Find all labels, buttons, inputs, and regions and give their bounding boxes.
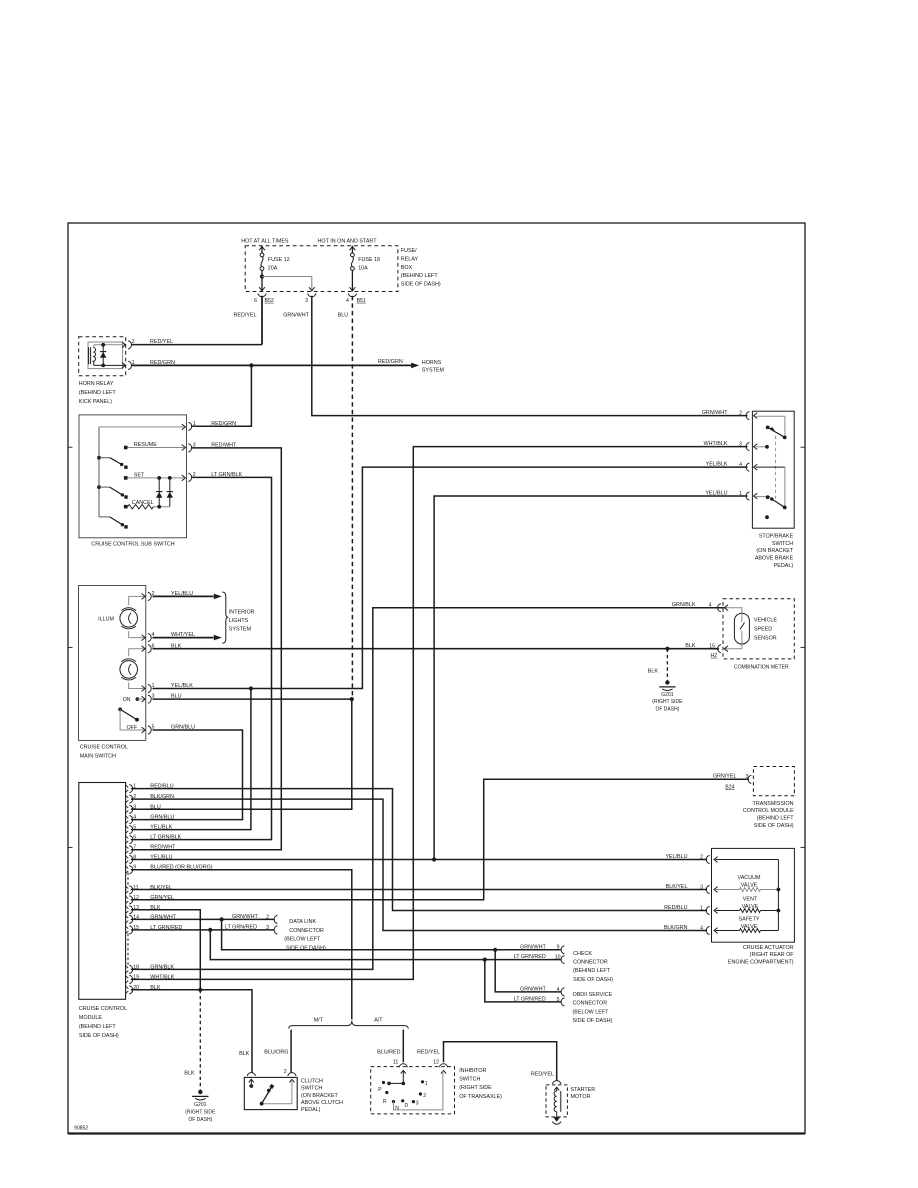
svg-text:SYSTEM: SYSTEM — [422, 367, 445, 373]
wire BLK module pin20 to clutch switch — [131, 990, 252, 1073]
svg-text:BLK/YEL: BLK/YEL — [150, 885, 172, 891]
diode D1 sub switch — [158, 478, 160, 507]
svg-text:15: 15 — [709, 644, 715, 650]
frame tick right — [801, 846, 806, 848]
svg-text:SIDE OF DASH): SIDE OF DASH) — [401, 282, 441, 288]
svg-text:LIGHTS: LIGHTS — [229, 618, 249, 624]
stop/brake lower blade — [772, 499, 785, 507]
wire GRN/BLK meter pin4 to module pin 18 — [131, 608, 724, 970]
sub switch inner wire pin 1 — [99, 426, 184, 428]
arrow up hot feed F18 — [350, 247, 356, 251]
svg-text:12: 12 — [433, 1060, 439, 1066]
svg-text:KICK PANEL): KICK PANEL) — [79, 399, 112, 405]
svg-text:20A: 20A — [268, 265, 278, 271]
svg-text:ILLUM: ILLUM — [98, 616, 114, 622]
arrow down fuse box pin 3 — [309, 287, 315, 291]
svg-text:1: 1 — [193, 421, 196, 427]
svg-text:SWITCH: SWITCH — [772, 541, 793, 547]
svg-text:10A: 10A — [358, 265, 368, 271]
connector cup module pin 14 — [129, 915, 132, 923]
connector cup actuator pin 3 — [706, 885, 709, 893]
svg-text:BLK: BLK — [239, 1051, 250, 1057]
inhibitor common contact — [402, 1082, 406, 1086]
wire RED/BLU module pin1 to actuator pin 1 — [131, 789, 707, 911]
svg-text:CONNECTOR: CONNECTOR — [573, 960, 608, 966]
svg-text:INTERIOR: INTERIOR — [229, 610, 255, 616]
svg-text:G201: G201 — [661, 692, 673, 698]
svg-text:A/T: A/T — [374, 1017, 383, 1023]
starter motor ground — [553, 1117, 560, 1122]
sub switch arm 2 blade — [110, 487, 123, 495]
frame tick left — [68, 646, 73, 648]
svg-text:ABOVE CLUTCH: ABOVE CLUTCH — [301, 1100, 343, 1106]
wire RED/WHT sub pin3 to module pin 7 — [131, 448, 281, 850]
junction RED/GRN to sub switch — [249, 363, 253, 367]
connector cup module pin 13 — [129, 906, 132, 914]
transmission control module — [753, 767, 794, 796]
svg-text:CRUISE CONTROL: CRUISE CONTROL — [80, 745, 128, 751]
svg-text:CONNECTOR: CONNECTOR — [289, 928, 324, 934]
connector cup clutch pin 1 — [247, 1073, 255, 1076]
frame tick left — [68, 446, 73, 448]
svg-text:GRN/BLK: GRN/BLK — [150, 964, 174, 970]
svg-text:LT GRN/RED: LT GRN/RED — [514, 997, 546, 1003]
fuse/relay box — [245, 246, 398, 292]
junction actuator bus — [777, 888, 781, 892]
svg-text:11: 11 — [393, 1060, 398, 1066]
svg-text:4: 4 — [557, 987, 560, 993]
connector cup pin 3 — [308, 294, 316, 297]
svg-text:BLU: BLU — [150, 804, 161, 810]
junction horn relay diode bottom — [101, 364, 105, 368]
inhibitor inner wire pin 11 — [402, 1070, 404, 1083]
connector cup horn relay pin 1 — [128, 361, 131, 369]
svg-text:SYSTEM: SYSTEM — [229, 627, 252, 633]
connector cup stop/brake pin 1 — [746, 492, 749, 500]
junction YEL/BLK branch to module — [249, 686, 253, 690]
wire BLU/RED to inhibitor switch — [402, 1030, 404, 1063]
junction SET diode 2 — [168, 476, 172, 480]
border frame — [68, 223, 805, 1134]
svg-text:10: 10 — [555, 955, 561, 961]
horn relay diode — [102, 345, 104, 366]
connector cup main pin 5 — [148, 726, 151, 734]
svg-text:VALVE: VALVE — [741, 882, 758, 888]
svg-text:FUSE 18: FUSE 18 — [358, 257, 380, 263]
svg-text:(BEHIND LEFT: (BEHIND LEFT — [573, 968, 611, 974]
brace M/T A/T split — [289, 1021, 409, 1029]
sub switch inner wire RESUME pin 3 — [128, 447, 185, 449]
svg-text:(RIGHT REAR OF: (RIGHT REAR OF — [750, 952, 795, 958]
sub switch inner wire SET pin 2 — [128, 477, 185, 479]
svg-text:CHECK: CHECK — [573, 951, 592, 957]
svg-text:R: R — [383, 1099, 387, 1105]
svg-text:INHIBITOR: INHIBITOR — [459, 1068, 486, 1074]
junction CANCEL diode 1 — [157, 505, 161, 509]
contact 3 — [412, 1100, 415, 1103]
stop/brake pin 1 stub — [756, 496, 771, 498]
connector cup inhibitor pin 12 — [439, 1064, 447, 1067]
wire BLU (dashed) fuse pin4 down to main switch junction — [351, 296, 353, 699]
VSS reed contact — [740, 623, 745, 630]
solenoid safety valve — [716, 930, 740, 932]
stop/brake lower pivot — [783, 506, 787, 510]
sub switch arm 1 pivot — [97, 456, 101, 460]
connector cup module pin 19 — [129, 975, 132, 983]
svg-text:2: 2 — [739, 410, 742, 416]
horn relay pin 1 contact arrow — [122, 363, 126, 369]
svg-text:MOTOR: MOTOR — [571, 1094, 591, 1100]
wire RED/GRN branch to sub switch pin 1 — [191, 365, 251, 426]
svg-text:YEL/BLU: YEL/BLU — [150, 855, 172, 861]
lamp ILLUM — [129, 596, 145, 605]
fuse F12 20A — [261, 246, 263, 254]
connector cup main pin 3 — [148, 695, 151, 703]
inhibitor inner wire pin 12 — [394, 1070, 443, 1110]
cruise control module — [79, 783, 126, 1000]
svg-text:3: 3 — [305, 298, 308, 304]
svg-text:SWITCH: SWITCH — [459, 1077, 480, 1083]
wire BLK module pin13 down — [131, 910, 201, 990]
svg-text:RED/WHT: RED/WHT — [150, 845, 176, 851]
connector cup module pin 6 — [129, 836, 132, 844]
wire BLU/ORG to clutch switch — [290, 1030, 292, 1073]
svg-text:WHT/BLK: WHT/BLK — [150, 974, 174, 980]
wire LT GRN/BLK sub pin2 to module pin 6 — [131, 477, 272, 839]
svg-text:RELAY: RELAY — [401, 256, 419, 262]
junction SET diode 1 — [157, 476, 161, 480]
connector cup main pin 1 — [148, 684, 151, 692]
svg-text:MODULE: MODULE — [79, 1015, 102, 1021]
junction horn relay diode top — [101, 343, 105, 347]
svg-text:5: 5 — [557, 997, 560, 1003]
connector cup OBDII pin 5 — [561, 998, 564, 1006]
svg-text:B52: B52 — [265, 298, 274, 304]
svg-text:12: 12 — [133, 895, 139, 901]
wire BLU/RED module pin9 to M/T-A/T brace — [131, 870, 352, 1020]
svg-text:HOT AT ALL TIMES: HOT AT ALL TIMES — [241, 239, 289, 245]
svg-text:VALVE: VALVE — [741, 924, 758, 930]
svg-text:3: 3 — [133, 804, 136, 810]
wire LT GRN/RED branch to check connector pin 10 — [210, 930, 561, 960]
connector cup module pin 20 — [129, 986, 132, 994]
svg-text:HORN RELAY: HORN RELAY — [79, 381, 114, 387]
connector cup module pin 11 — [129, 886, 132, 894]
connector cup horn relay pin 2 — [128, 341, 131, 349]
svg-text:TRANSMISSION: TRANSMISSION — [753, 801, 794, 807]
connector cup DLC pin 2 — [274, 915, 277, 923]
main switch blade — [120, 709, 137, 719]
svg-text:VEHICLE: VEHICLE — [754, 617, 777, 623]
arrowhead to horns system — [411, 363, 419, 369]
svg-text:PEDAL): PEDAL) — [774, 563, 794, 569]
connector cup module pin 12 — [129, 896, 132, 904]
svg-text:STOP/BRAKE: STOP/BRAKE — [759, 533, 794, 539]
wire RED/YEL drop from pin 6 — [261, 296, 263, 345]
vehicle speed sensor — [734, 613, 749, 644]
svg-text:GRN/BLU: GRN/BLU — [150, 815, 174, 821]
svg-text:RED/BLU: RED/BLU — [150, 784, 173, 790]
sub switch pin 3 arrow — [182, 445, 186, 451]
svg-text:3: 3 — [416, 1101, 419, 1107]
wire YEL/BLK branch to module pin 5 — [131, 689, 251, 830]
svg-text:CLUTCH: CLUTCH — [301, 1078, 323, 1084]
arrowhead YEL/BLU — [214, 594, 222, 600]
svg-text:4: 4 — [133, 815, 136, 821]
svg-text:VALVE: VALVE — [742, 904, 759, 910]
frame tick right — [801, 646, 806, 648]
horn relay inner wire pin 1 — [94, 364, 125, 366]
svg-text:DATA LINK: DATA LINK — [289, 919, 316, 925]
svg-text:GRN/WHT: GRN/WHT — [520, 987, 546, 993]
connector cup TCM pin 3 — [748, 775, 751, 783]
svg-text:BLK: BLK — [184, 1071, 195, 1077]
lamp main switch 2 — [129, 649, 145, 657]
svg-text:H2: H2 — [711, 653, 718, 659]
svg-text:9: 9 — [557, 945, 560, 951]
ground G201 (right side of dash) — [665, 680, 669, 684]
connector cup OBDII pin 4 — [561, 988, 564, 996]
frame tick left — [68, 846, 73, 848]
horn relay — [79, 337, 126, 376]
svg-text:LT GRN/BLK: LT GRN/BLK — [150, 835, 181, 841]
svg-text:SENSOR: SENSOR — [754, 635, 777, 641]
contact R — [385, 1091, 388, 1094]
svg-text:1: 1 — [133, 784, 136, 790]
resistor sub switch CANCEL — [128, 505, 154, 509]
svg-text:BOX: BOX — [401, 265, 413, 271]
svg-text:7: 7 — [133, 845, 136, 851]
svg-text:(BELOW LEFT: (BELOW LEFT — [573, 1009, 610, 1015]
svg-text:CRUISE CONTROL SUB SWITCH: CRUISE CONTROL SUB SWITCH — [91, 542, 174, 548]
wire BLK dashed to ground — [666, 649, 668, 681]
svg-text:1: 1 — [425, 1081, 428, 1087]
starter motor coil — [554, 1091, 557, 1112]
svg-text:HORNS: HORNS — [422, 360, 442, 366]
svg-text:FUSE/: FUSE/ — [401, 248, 417, 254]
module hidden pins dashes — [127, 873, 129, 888]
connector cup module pin 8 — [129, 855, 132, 863]
connector cup actuator pin 2 — [706, 855, 709, 863]
svg-text:SIDE OF DASH): SIDE OF DASH) — [573, 1018, 613, 1024]
svg-text:GRN/WHT: GRN/WHT — [232, 914, 258, 920]
svg-text:4: 4 — [739, 462, 742, 468]
wire GRN/WHT module pin14 to DLC pin 2 — [131, 918, 275, 920]
actuator internal bus — [716, 859, 779, 861]
svg-text:(BEHIND LEFT: (BEHIND LEFT — [79, 1024, 117, 1030]
wire BLU junction to module pin 3 — [131, 699, 352, 809]
connector cup meter pin 15 — [718, 645, 721, 653]
wire LT GRN/RED to OBDII pin 5 — [485, 960, 562, 1002]
svg-text:(ON BRACKET: (ON BRACKET — [301, 1093, 339, 1099]
contact unused — [765, 515, 769, 519]
svg-text:HOT IN ON AND START: HOT IN ON AND START — [318, 239, 378, 245]
horn relay coil — [88, 347, 90, 364]
junction YEL/BLU — [432, 857, 436, 861]
stop/brake switch internals — [756, 416, 785, 436]
connector cup module pin 15 — [129, 926, 132, 934]
contact stop/brake pin1 — [766, 495, 770, 499]
connector cup inhibitor pin 11 — [399, 1064, 407, 1067]
svg-text:OFF: OFF — [127, 725, 137, 731]
stop/brake upper blade — [770, 429, 785, 438]
cruise control sub switch — [79, 415, 187, 538]
wire RED/YEL to horn relay pin 2 — [132, 344, 263, 346]
wire YEL/BLU stop/brake pin1 to actuator junction — [434, 496, 747, 860]
contact 2 — [419, 1092, 422, 1095]
svg-text:(RIGHT SIDE: (RIGHT SIDE — [185, 1110, 216, 1116]
wire OFF contact to pin 5 — [120, 709, 144, 730]
frame tick right — [801, 446, 806, 448]
svg-text:YEL/BLK: YEL/BLK — [706, 462, 728, 468]
horn relay inner wire pin 2 — [94, 344, 125, 346]
wire BLK/GRN module pin2 to actuator pin 4 — [131, 799, 707, 930]
stop/brake pin 4 inner wire — [756, 466, 785, 468]
connector cup clutch pin 2 — [288, 1073, 296, 1076]
horn relay pin 2 contact arrow — [122, 342, 126, 348]
svg-text:VENT: VENT — [743, 897, 758, 903]
svg-text:LT GRN/RED: LT GRN/RED — [225, 925, 257, 931]
svg-text:11: 11 — [133, 885, 138, 891]
svg-text:SWITCH: SWITCH — [301, 1086, 322, 1092]
svg-text:RED/YEL: RED/YEL — [531, 1072, 554, 1078]
connector cup check connector pin 10 — [561, 956, 564, 964]
connector cup DLC pin 3 — [274, 926, 277, 934]
svg-text:BLU: BLU — [338, 313, 349, 319]
svg-text:GRN/YEL: GRN/YEL — [150, 895, 174, 901]
sub switch common bar — [98, 427, 100, 517]
wire YEL/BLU to interior lights — [153, 595, 214, 597]
svg-text:(BEHIND LEFT: (BEHIND LEFT — [401, 273, 439, 279]
svg-text:2: 2 — [284, 1069, 287, 1075]
wire BLK dashed to ground G201 — [199, 990, 201, 1090]
contact P — [382, 1081, 385, 1084]
clutch switch blade — [262, 1087, 272, 1104]
sub switch pin 1 arrow — [182, 424, 186, 430]
contact N — [392, 1100, 395, 1103]
svg-text:OF DASH): OF DASH) — [655, 706, 679, 712]
svg-text:8: 8 — [133, 855, 136, 861]
svg-text:PEDAL): PEDAL) — [301, 1107, 321, 1113]
stop/brake upper pivot — [783, 436, 787, 440]
svg-text:(BEHIND LEFT: (BEHIND LEFT — [79, 390, 117, 396]
svg-text:B51: B51 — [357, 298, 366, 304]
wire RED/GRN horn relay pin1 to horns system — [132, 364, 412, 366]
connector cup module pin 9 — [129, 866, 132, 874]
svg-text:CONTROL MODULE: CONTROL MODULE — [743, 808, 794, 814]
sub switch arm 3 — [99, 516, 110, 518]
contact ON — [136, 697, 140, 701]
svg-text:CONNECTOR: CONNECTOR — [573, 1001, 608, 1007]
svg-text:BLU/ORG: BLU/ORG — [264, 1050, 288, 1056]
mechanical link dashed — [775, 436, 777, 499]
svg-text:2: 2 — [423, 1093, 426, 1099]
svg-text:4: 4 — [346, 298, 349, 304]
svg-text:90852: 90852 — [74, 1126, 88, 1132]
svg-text:ABOVE BRAKE: ABOVE BRAKE — [755, 556, 794, 562]
connector cup sub pin 1 — [188, 422, 191, 430]
wire RED/YEL vertical — [261, 296, 263, 343]
arrow up hot feed F12 — [259, 247, 265, 251]
connector cup main pin 6 — [148, 645, 151, 653]
contact 1 — [421, 1080, 424, 1083]
wire BLU main pin3 to junction — [153, 698, 352, 700]
svg-text:YEL/BLK: YEL/BLK — [150, 825, 172, 831]
wire branch F12 to pin 3 — [262, 277, 312, 292]
starter motor — [546, 1085, 567, 1117]
contact clutch pin 1 — [249, 1084, 253, 1088]
svg-text:6: 6 — [254, 298, 257, 304]
svg-text:(BEHIND LEFT: (BEHIND LEFT — [757, 816, 795, 822]
svg-text:RED/YEL: RED/YEL — [150, 339, 173, 345]
svg-text:(RIGHT SIDE: (RIGHT SIDE — [459, 1085, 492, 1091]
svg-text:MAIN SWITCH: MAIN SWITCH — [80, 754, 116, 760]
svg-text:CRUISE CONTROL: CRUISE CONTROL — [79, 1006, 127, 1012]
wire BLK/YEL module pin11 to actuator pin 3 — [131, 889, 707, 891]
connector cup module pin 18 — [129, 965, 132, 973]
fuse F18 10A — [351, 246, 353, 254]
svg-text:3: 3 — [266, 925, 269, 931]
connector cup main pin 2 — [148, 592, 151, 600]
junction LT GRN/RED — [208, 928, 212, 932]
svg-text:RED/YEL: RED/YEL — [234, 313, 257, 319]
combination meter — [723, 599, 794, 659]
svg-text:CRUISE ACTUATOR: CRUISE ACTUATOR — [743, 945, 794, 951]
cruise control main switch — [79, 586, 146, 741]
connector cup stop/brake pin 3 — [746, 443, 749, 451]
connector cup sub pin 3 — [188, 444, 191, 452]
connector cup meter pin 4 — [718, 604, 721, 612]
svg-text:19: 19 — [133, 974, 139, 980]
wire RED/YEL inhibitor pin12 to starter motor — [444, 1042, 557, 1081]
sub switch arm 1 blade — [110, 458, 122, 465]
sub switch pin 2 arrow — [182, 475, 186, 481]
svg-text:M/T: M/T — [314, 1017, 324, 1023]
contact stop/brake pin2 — [766, 426, 770, 430]
wire YEL/BLK main pin1 to stop/brake pin 4 — [153, 467, 748, 688]
contact stop/brake pin3 — [765, 445, 769, 449]
stop/brake pin 3 stub — [756, 446, 766, 448]
svg-text:FUSE 12: FUSE 12 — [268, 257, 290, 263]
svg-text:2: 2 — [133, 794, 136, 800]
solenoid vacuum valve — [716, 889, 740, 891]
svg-text:BLU/RED: BLU/RED — [377, 1050, 400, 1056]
connector cup pin 4 B51 — [348, 294, 356, 297]
inhibitor switch — [371, 1067, 455, 1114]
svg-text:RED/YEL: RED/YEL — [417, 1050, 440, 1056]
ground G201 (right side of dash) lower — [198, 1090, 202, 1094]
svg-text:GRN/WHT: GRN/WHT — [520, 944, 546, 950]
svg-text:ON: ON — [123, 697, 131, 703]
wire WHT/YEL to interior lights — [153, 637, 214, 639]
connector cup module pin 3 — [129, 805, 132, 813]
svg-text:GRN/WHT: GRN/WHT — [702, 410, 728, 416]
wire YEL/BLU module pin8 to actuator pin 2 — [131, 859, 707, 861]
svg-text:G201: G201 — [194, 1102, 206, 1108]
junction BLU fuse feed — [350, 697, 354, 701]
solenoid vent valve — [716, 910, 740, 912]
svg-text:18: 18 — [133, 964, 139, 970]
connector cup sub pin 2 — [188, 473, 191, 481]
diode D2 sub switch — [169, 478, 171, 507]
wire BLK main pin6 to combination meter pin 15 — [153, 648, 720, 650]
connector cup stop/brake pin 2 — [746, 412, 749, 420]
connector cup actuator pin 1 — [706, 906, 709, 914]
sub switch arm 2 pivot — [97, 485, 101, 489]
svg-text:SAFETY: SAFETY — [739, 917, 760, 923]
svg-text:(RIGHT SIDE: (RIGHT SIDE — [652, 699, 683, 705]
svg-text:OF TRANSAXLE): OF TRANSAXLE) — [459, 1094, 502, 1100]
